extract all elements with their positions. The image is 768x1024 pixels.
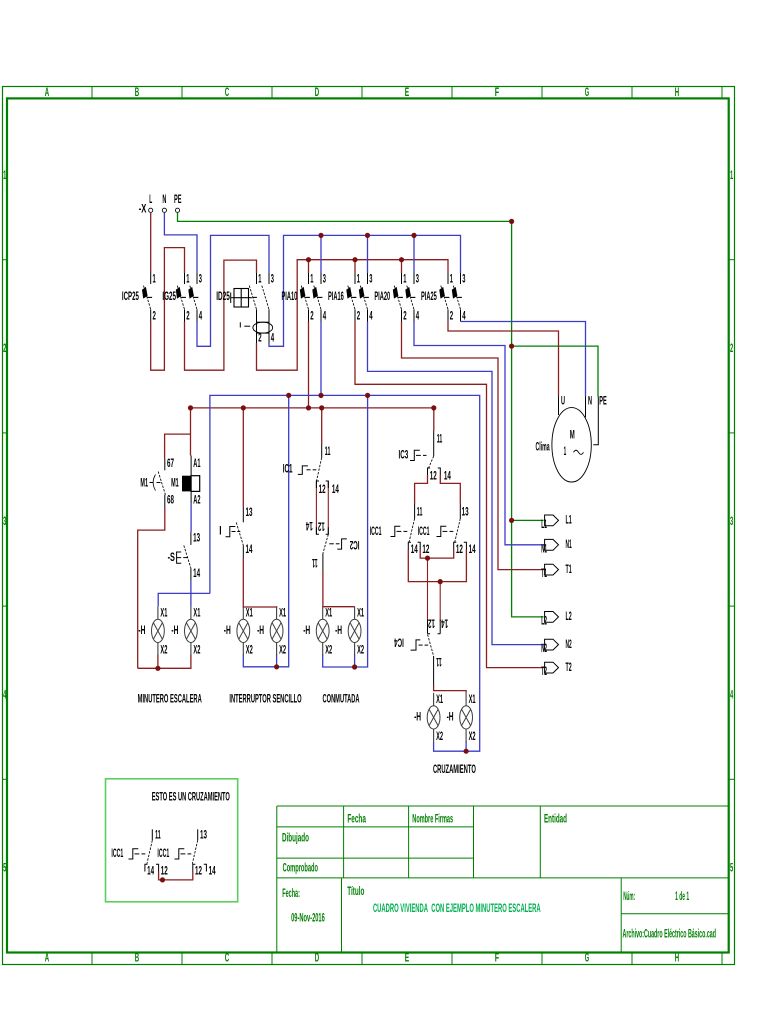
wire switch I out to lamps <box>243 558 276 607</box>
wire PIA10 pin4 to blue lighting bus <box>320 322 322 396</box>
wire red bus drop to PIA20 pin1 <box>401 260 403 273</box>
svg-text:L2: L2 <box>541 615 547 628</box>
breaker IG25 <box>162 273 202 323</box>
svg-text:IC3: IC3 <box>399 448 409 461</box>
svg-text:1: 1 <box>186 273 189 286</box>
svg-text:-H: -H <box>335 624 342 637</box>
switch IC4 (two-way mirrored) <box>394 617 448 685</box>
wire IC2 out to lamps <box>323 571 355 607</box>
wire lamp return bus minutero <box>138 655 191 669</box>
svg-text:Fecha:: Fecha: <box>282 887 300 900</box>
svg-text:Entidad: Entidad <box>544 812 567 825</box>
wire blue bus drop to PIA16 pin3 <box>367 235 369 273</box>
breaker PIA10 <box>282 273 327 323</box>
svg-text:X1: X1 <box>160 607 167 620</box>
svg-text:N1: N1 <box>566 538 572 551</box>
svg-text:CUADRO VIVIENDA CON EJEMPLO M: CUADRO VIVIENDA CON EJEMPLO MINUTERO ESC… <box>373 902 541 915</box>
wire conmutada cross link wires 12/14 <box>316 481 328 534</box>
svg-text:12: 12 <box>428 617 435 630</box>
svg-text:12: 12 <box>161 865 168 878</box>
svg-text:3: 3 <box>369 273 372 286</box>
svg-text:L: L <box>149 193 152 206</box>
svg-text:-H: -H <box>447 710 454 723</box>
svg-text:X1: X1 <box>325 607 332 620</box>
svg-text:I: I <box>219 525 221 538</box>
svg-text:ICC1: ICC1 <box>111 847 123 860</box>
lamp H5 conmutada left <box>303 606 332 656</box>
wire red drop to switch IC1 pin 11 <box>321 408 323 445</box>
svg-text:N1: N1 <box>541 542 547 555</box>
wire lamp return to N bus (interruptor) <box>243 395 288 666</box>
svg-text:ICC1: ICC1 <box>157 847 169 860</box>
svg-text:Comprobado: Comprobado <box>283 861 318 874</box>
svg-text:4: 4 <box>462 310 466 323</box>
svg-text:11: 11 <box>325 445 331 458</box>
svg-text:N2: N2 <box>541 642 547 655</box>
svg-text:A: A <box>45 86 50 99</box>
svg-text:E: E <box>405 951 410 964</box>
svg-text:M: M <box>570 429 575 442</box>
svg-text:-H: -H <box>224 624 231 637</box>
svg-text:N2: N2 <box>566 638 572 651</box>
svg-text:3: 3 <box>3 515 6 528</box>
svg-text:11: 11 <box>437 432 443 445</box>
wire PE branch to L1 tag <box>512 519 544 521</box>
svg-text:G: G <box>585 951 589 964</box>
wire right lamp return stub cruzamiento <box>465 741 467 751</box>
wire PE branch to motor <box>512 346 598 396</box>
svg-text:68: 68 <box>167 493 174 506</box>
svg-text:CONMUTADA: CONMUTADA <box>323 693 360 706</box>
svg-text:4: 4 <box>271 332 275 345</box>
svg-text:1: 1 <box>3 169 6 182</box>
svg-text:PIA20: PIA20 <box>374 290 390 303</box>
svg-text:1: 1 <box>730 169 733 182</box>
svg-text:ESTO ES UN CRUZAMIENTO: ESTO ES UN CRUZAMIENTO <box>152 790 230 803</box>
wire L phase down to ICP25 <box>150 213 152 273</box>
svg-text:1: 1 <box>310 273 313 286</box>
coil M1 (A1/A2) <box>171 456 201 507</box>
svg-text:N: N <box>162 193 166 206</box>
svg-text:1: 1 <box>258 273 261 286</box>
svg-text:14: 14 <box>306 519 313 532</box>
wire right lamp return stub <box>276 655 278 667</box>
wire red drop to M1 coil A1 and branch to contact 67 <box>165 434 191 458</box>
svg-text:L1: L1 <box>566 514 572 527</box>
svg-text:14: 14 <box>444 470 451 483</box>
svg-text:CRUZAMIENTO: CRUZAMIENTO <box>433 763 476 776</box>
svg-text:-X: -X <box>139 202 147 215</box>
wire PE green: from PE terminal right and down to L2 <box>178 213 544 617</box>
svg-text:B: B <box>135 86 139 99</box>
svg-text:-H: -H <box>303 624 310 637</box>
svg-text:14: 14 <box>332 483 339 496</box>
svg-text:X1: X1 <box>246 607 253 620</box>
svg-text:5: 5 <box>730 862 733 875</box>
svg-text:13: 13 <box>462 506 469 519</box>
svg-text:4: 4 <box>3 688 6 701</box>
wire ICC1 12-12 link <box>420 550 454 559</box>
svg-text:4: 4 <box>416 310 420 323</box>
svg-text:X2: X2 <box>357 644 364 657</box>
wire PIA25 pin2 to motor U <box>448 322 559 397</box>
wire PIA20 pin4 to N1 <box>414 322 544 545</box>
svg-text:1: 1 <box>357 273 360 286</box>
svg-text:13: 13 <box>193 531 200 544</box>
lamp H6 conmutada right <box>335 606 364 656</box>
svg-text:IC4: IC4 <box>394 636 404 649</box>
svg-text:Archivo:Cuadro Eléctrico Básic: Archivo:Cuadro Eléctrico Básico.cad <box>623 927 717 940</box>
svg-text:X2: X2 <box>246 644 253 657</box>
switch ICC1 demo (crossing switch in box) <box>111 829 215 878</box>
svg-text:N: N <box>588 395 592 408</box>
svg-text:5: 5 <box>3 862 6 875</box>
svg-text:14: 14 <box>469 543 476 556</box>
wire IC3 pin12 to ICC1 pin11 <box>415 475 428 504</box>
wire coil A2 down to pushbutton 13 <box>190 504 192 533</box>
svg-text:ICP25: ICP25 <box>122 290 139 303</box>
svg-text:14: 14 <box>193 567 200 580</box>
tag T1 <box>541 563 572 580</box>
svg-text:13: 13 <box>246 506 253 519</box>
svg-text:12: 12 <box>456 543 463 556</box>
svg-text:2: 2 <box>730 342 733 355</box>
tag T2 <box>541 661 571 678</box>
svg-text:14: 14 <box>209 865 216 878</box>
svg-text:11: 11 <box>312 556 318 569</box>
wire ICP25 out to IG25 pin 1 <box>151 248 185 371</box>
svg-text:Núm:: Núm: <box>623 890 635 903</box>
lamp H8 cruzamiento right <box>447 693 476 743</box>
svg-text:12: 12 <box>422 543 429 556</box>
svg-text:T1: T1 <box>566 563 572 576</box>
svg-text:67: 67 <box>167 457 174 470</box>
tag L2 <box>541 610 571 627</box>
svg-text:ICC1: ICC1 <box>370 525 382 538</box>
lamp H4 interruptor right <box>257 606 286 656</box>
svg-text:-H: -H <box>257 624 264 637</box>
pushbutton -S (13/14) <box>168 531 201 580</box>
svg-text:D: D <box>315 951 319 964</box>
wire pushbutton 14 down to right lamp <box>190 580 192 606</box>
svg-text:4: 4 <box>323 310 327 323</box>
wire lamp return to N bus (conmutada) <box>323 395 368 667</box>
svg-text:IG25: IG25 <box>162 290 176 303</box>
svg-text:11: 11 <box>417 506 423 519</box>
svg-text:1: 1 <box>450 273 453 286</box>
svg-text:11: 11 <box>436 655 442 668</box>
svg-text:-H: -H <box>171 624 178 637</box>
svg-text:3: 3 <box>199 273 202 286</box>
wire red drop to switch I pin 13 <box>242 408 244 508</box>
svg-text:3: 3 <box>323 273 326 286</box>
svg-text:T2: T2 <box>541 665 547 678</box>
breaker ICP25 <box>122 273 156 323</box>
svg-text:M1: M1 <box>171 476 179 489</box>
wire red bus drop to PIA16 pin1 <box>354 260 356 273</box>
wire red bus drop to PIA10 pin1 <box>308 260 310 273</box>
svg-text:T2: T2 <box>566 661 572 674</box>
svg-text:F: F <box>495 86 499 99</box>
annotation box ESTO ES UN CRUZAMIENTO <box>106 779 238 902</box>
svg-text:MINUTERO ESCALERA: MINUTERO ESCALERA <box>138 693 202 706</box>
junction dot in box <box>160 877 165 882</box>
breaker PIA16 <box>328 273 373 323</box>
breaker ID25 (differential) <box>216 273 274 345</box>
tag N1 <box>541 538 572 555</box>
wire N drop horizontal to left lamp <box>158 593 210 606</box>
svg-text:Título: Título <box>347 885 364 898</box>
svg-text:PIA10: PIA10 <box>282 290 298 303</box>
wire blue bus drop to PIA10 pin3 <box>320 235 322 273</box>
svg-text:12: 12 <box>319 483 326 496</box>
svg-text:Fecha: Fecha <box>347 812 366 825</box>
svg-text:L1: L1 <box>541 518 547 531</box>
terminal brackets conmutada 12/14 <box>306 481 340 534</box>
wire blue bus drop to PIA20 pin3 <box>413 235 415 273</box>
svg-text:IC1: IC1 <box>283 462 293 475</box>
svg-text:X1: X1 <box>469 693 476 706</box>
svg-text:A2: A2 <box>193 493 200 506</box>
wire IG25 pin2 out to ID25 pin 1 <box>185 260 257 370</box>
wire N down and over to IG25 pin 3 <box>164 213 197 273</box>
svg-text:2: 2 <box>310 310 313 323</box>
lamp H2 minutero right <box>171 606 200 656</box>
svg-text:M1: M1 <box>140 476 148 489</box>
svg-text:ICC1: ICC1 <box>418 525 430 538</box>
svg-text:Nombre Firmas: Nombre Firmas <box>412 812 453 825</box>
motor M Clima <box>536 395 607 482</box>
svg-text:PIA25: PIA25 <box>421 290 437 303</box>
svg-text:PIA16: PIA16 <box>328 290 344 303</box>
lamp H3 interruptor left <box>224 606 253 656</box>
svg-text:X2: X2 <box>469 730 476 743</box>
svg-text:14: 14 <box>246 543 253 556</box>
switch IC2 (two-way mirrored) <box>312 534 360 571</box>
switch IC3 (two-way 11/12/14) <box>399 431 452 483</box>
wire IC3 pin14 to ICC1 pin13 <box>440 475 460 504</box>
svg-text:H: H <box>675 86 679 99</box>
svg-text:X1: X1 <box>193 607 200 620</box>
svg-text:H: H <box>675 951 679 964</box>
junction dots <box>155 219 514 754</box>
svg-text:E: E <box>405 86 410 99</box>
svg-text:X2: X2 <box>193 644 200 657</box>
switch ICC1 (crossing switch, two arms) <box>370 504 476 556</box>
svg-text:3: 3 <box>462 273 465 286</box>
svg-text:11: 11 <box>155 829 161 842</box>
svg-text:13: 13 <box>200 829 207 842</box>
svg-text:T1: T1 <box>541 567 547 580</box>
breaker PIA25 <box>421 273 466 323</box>
svg-text:INTERRUPTOR SENCILLO: INTERRUPTOR SENCILLO <box>229 693 301 706</box>
svg-text:X2: X2 <box>436 730 443 743</box>
svg-text:4: 4 <box>369 310 373 323</box>
wire red lighting bus <box>191 408 434 456</box>
svg-text:D: D <box>315 86 319 99</box>
svg-text:2: 2 <box>186 310 189 323</box>
svg-text:14: 14 <box>441 617 448 630</box>
svg-text:X1: X1 <box>436 693 443 706</box>
svg-text:B: B <box>135 951 139 964</box>
svg-text:2: 2 <box>357 310 360 323</box>
svg-text:3: 3 <box>271 273 274 286</box>
svg-text:A1: A1 <box>193 457 200 470</box>
breaker PIA20 <box>374 273 419 323</box>
svg-text:ID25: ID25 <box>216 290 230 303</box>
svg-text:3: 3 <box>730 515 733 528</box>
relay contact M1 (timer contact 67/68) <box>140 457 174 507</box>
svg-text:Clima: Clima <box>536 441 550 454</box>
lamp H7 cruzamiento left <box>414 693 443 743</box>
svg-text:1: 1 <box>564 445 567 458</box>
svg-text:1 de 1: 1 de 1 <box>675 890 689 903</box>
wire M1 contact 68 down-left to lamp return bus <box>138 508 165 669</box>
svg-text:X2: X2 <box>279 644 286 657</box>
svg-text:14: 14 <box>411 543 418 556</box>
wire PIA10 pin2 to red lighting bus <box>308 322 310 408</box>
svg-text:X1: X1 <box>279 607 286 620</box>
svg-text:L2: L2 <box>566 610 572 623</box>
wire ID25 pin2 out: red bus feeding PIA breakers <box>257 260 449 371</box>
wire tap 14 down to IC4 <box>439 582 441 622</box>
svg-text:3: 3 <box>416 273 419 286</box>
svg-text:C: C <box>225 86 230 99</box>
svg-text:F: F <box>495 951 499 964</box>
svg-text:U: U <box>561 395 565 408</box>
svg-text:X1: X1 <box>357 607 364 620</box>
title block <box>277 806 729 953</box>
svg-text:4: 4 <box>730 688 733 701</box>
wire ICC1 14-14 link <box>408 550 466 582</box>
svg-text:1: 1 <box>153 273 156 286</box>
svg-text:14: 14 <box>147 865 154 878</box>
svg-text:1: 1 <box>403 273 406 286</box>
svg-text:2: 2 <box>153 310 156 323</box>
svg-text:Dibujado: Dibujado <box>282 831 309 844</box>
svg-text:-H: -H <box>414 710 421 723</box>
wire blue lighting bus <box>210 395 480 751</box>
svg-text:A: A <box>45 951 50 964</box>
svg-text:2: 2 <box>403 310 406 323</box>
svg-text:2: 2 <box>3 342 6 355</box>
tag L1 <box>541 514 572 531</box>
svg-text:12: 12 <box>318 519 325 532</box>
lamp H1 minutero left <box>138 606 167 656</box>
svg-text:C: C <box>225 951 230 964</box>
svg-text:12: 12 <box>195 865 202 878</box>
svg-text:IC2: IC2 <box>350 538 360 551</box>
svg-text:-S: -S <box>168 551 175 564</box>
wire tap 12 down to IC4 <box>427 558 429 621</box>
svg-text:4: 4 <box>199 310 203 323</box>
svg-text:X2: X2 <box>160 644 167 657</box>
svg-text:G: G <box>585 86 589 99</box>
wire right lamp return stub conmutada <box>354 655 356 668</box>
wire 12-12 link in box <box>159 872 193 880</box>
switch I (13/14) <box>219 506 253 558</box>
svg-text:-H: -H <box>138 624 145 637</box>
svg-text:09-Nov-2016: 09-Nov-2016 <box>291 912 325 925</box>
wire PIA16 pin4 to N2 <box>368 322 544 645</box>
wire IG25 pin4 out to ID25 pin 3 <box>197 235 269 346</box>
tag N2 <box>541 638 571 655</box>
wire PIA16 pin2 to T2 <box>355 322 544 668</box>
wire PIA25 pin4 to motor N <box>461 322 586 397</box>
svg-text:X2: X2 <box>325 644 332 657</box>
wire PIA20 pin2 to T1 <box>402 322 544 570</box>
wire ID25 pin4 out: blue N bus feeding PIA breakers <box>269 235 461 346</box>
svg-text:PE: PE <box>174 193 182 206</box>
switch IC1 (two-way, 11/12/14) <box>283 445 331 482</box>
svg-text:2: 2 <box>450 310 453 323</box>
svg-text:12: 12 <box>430 470 437 483</box>
svg-text:PE: PE <box>599 395 607 408</box>
wire IC4 out to lamps cruzamiento <box>434 685 467 693</box>
